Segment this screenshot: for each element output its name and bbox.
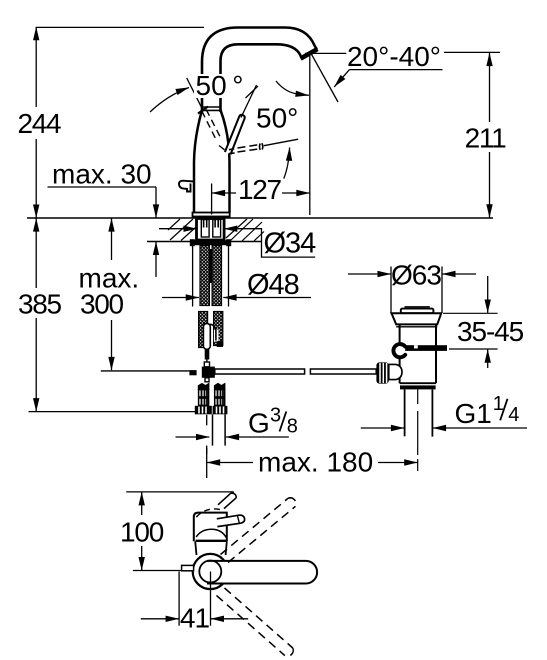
dimension 35-45: [487, 276, 489, 368]
dashed lever down-right: [217, 588, 294, 656]
shank through deck: [197, 219, 225, 241]
spout outlet face (aerator): [301, 49, 318, 59]
svg-text:100: 100: [120, 517, 164, 548]
rod coupling at faucet: [189, 362, 214, 382]
svg-text:G: G: [248, 408, 270, 439]
handle hook on left: [179, 181, 194, 192]
dimension G 3/8: [176, 436, 289, 438]
dimension 244: [36, 27, 204, 218]
outer sleeve lines: [192, 246, 194, 307]
body left edge: [194, 110, 202, 213]
pop-up body: [396, 324, 437, 383]
deck bottom line: [147, 241, 262, 243]
pop-up pull rod (vertical, below hoses): [205, 349, 210, 360]
svg-text:50 °: 50 °: [196, 70, 244, 101]
horizontal pop-up rod: [101, 370, 190, 372]
svg-text:385: 385: [18, 289, 62, 320]
base plate: [193, 213, 230, 217]
svg-text:G1: G1: [455, 398, 492, 429]
100 top reference line: [126, 491, 234, 493]
svg-text:41: 41: [180, 603, 210, 634]
dimension 211: [444, 52, 500, 217]
side knob (knurled): [376, 362, 402, 383]
dashed lever up-right: [221, 498, 297, 563]
50° upper annotation: [150, 78, 258, 118]
Ø63 extension lines: [348, 267, 476, 314]
spout tip seen from above: [218, 493, 236, 509]
threaded shank (upper hatched columns): [200, 246, 222, 306]
dimension 41: [141, 572, 248, 626]
dimension Ø48: [162, 297, 311, 299]
neck joint lines: [202, 106, 222, 108]
svg-text:244: 244: [18, 108, 62, 139]
svg-text:8: 8: [287, 416, 298, 438]
dimension 127: [212, 184, 310, 215]
solid lever bar (horizontal): [207, 561, 317, 584]
spout tip vertical extension to deck: [309, 56, 311, 215]
seal band (black): [404, 345, 447, 351]
faucet body: [194, 107, 230, 213]
svg-text:max. 180: max. 180: [258, 447, 373, 478]
cartridge circles: [193, 554, 228, 589]
pop-up body bottom: [400, 382, 436, 384]
100 bottom reference line: [133, 570, 189, 572]
retaining clip (white hook): [393, 344, 405, 357]
svg-text:Ø63: Ø63: [391, 260, 441, 291]
dimension G1 1/4: [361, 427, 527, 429]
35-45 extension lines: [443, 313, 498, 349]
dimension 385: [29, 218, 196, 411]
dimension 100: [141, 492, 143, 570]
svg-text:35-45: 35-45: [457, 316, 524, 347]
svg-text:3: 3: [270, 404, 281, 426]
deck hatching right of shank: [226, 219, 247, 238]
supply hose connectors (G 3/8): [198, 383, 225, 405]
tailpipe: [405, 390, 433, 472]
mounting washer and nut: [190, 239, 231, 246]
dimension max.180: [207, 448, 418, 478]
lever pivot notch at neck: [198, 107, 208, 114]
body right edge: [221, 110, 230, 213]
deck top line: [27, 217, 493, 219]
svg-text:max. 30: max. 30: [52, 159, 152, 190]
dimension Ø34 with bent leader: [159, 229, 315, 257]
svg-text:20°-40°: 20°-40°: [347, 41, 441, 72]
faucet spout tube: [202, 28, 317, 113]
lever dashed (down position, inside body): [202, 110, 226, 152]
left tab: [182, 565, 194, 570]
svg-text:50°: 50°: [256, 103, 298, 134]
svg-text:300: 300: [80, 289, 124, 320]
svg-text:Ø48: Ø48: [247, 269, 299, 301]
body top view: [194, 509, 227, 555]
svg-text:127: 127: [238, 174, 282, 205]
dimension max.300: [111, 218, 113, 370]
svg-text:Ø34: Ø34: [264, 228, 317, 260]
lever solid (raised 50°): [225, 115, 245, 155]
pop-up flange: [392, 313, 442, 324]
svg-text:4: 4: [508, 404, 519, 426]
lever dashed (second raised position, to right): [229, 149, 235, 154]
lever joint bracket (solid, on dashed lever): [260, 143, 263, 150]
svg-text:211: 211: [465, 123, 506, 154]
flexible hoses (lower hatched columns with break): [199, 312, 223, 350]
supply pipes below nuts: [207, 414, 225, 454]
lever axis thin line: [264, 139, 298, 146]
deck hatching left of shank: [168, 219, 264, 241]
connector nut bases: [195, 406, 228, 415]
pop-up cap: [401, 309, 434, 314]
small lever knob (top view, pointing right): [217, 515, 245, 526]
